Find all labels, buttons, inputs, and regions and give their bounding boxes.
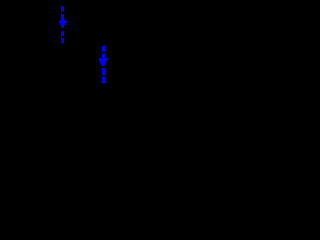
- current arrow I1 (dashed blue shaft, open V arrowhead pointing down): [59, 6, 67, 43]
- current arrow I2 (dashed blue shaft, open V arrowhead pointing down): [99, 46, 107, 83]
